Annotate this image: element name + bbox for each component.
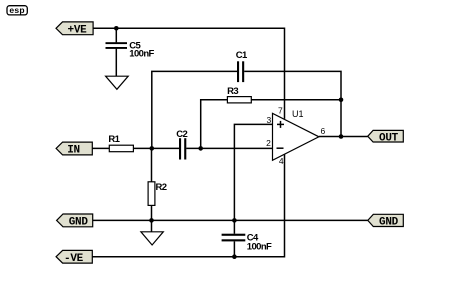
svg-text:IN: IN <box>67 144 80 156</box>
svg-text:C2: C2 <box>176 129 187 140</box>
svg-text:GND: GND <box>69 217 89 229</box>
svg-text:R3: R3 <box>227 86 238 97</box>
svg-text:-VE: -VE <box>64 253 84 265</box>
svg-text:esp: esp <box>9 5 25 15</box>
svg-text:OUT: OUT <box>379 132 399 144</box>
svg-text:6: 6 <box>321 126 326 136</box>
svg-text:7: 7 <box>278 106 283 116</box>
svg-text:U1: U1 <box>292 109 304 119</box>
svg-text:4: 4 <box>279 156 284 166</box>
svg-text:100nF: 100nF <box>247 241 272 252</box>
svg-text:R2: R2 <box>156 182 167 193</box>
svg-text:3: 3 <box>267 115 272 125</box>
svg-text:2: 2 <box>266 138 271 148</box>
svg-text:C1: C1 <box>236 50 248 61</box>
svg-text:100nF: 100nF <box>129 48 154 59</box>
svg-text:R1: R1 <box>108 134 120 145</box>
svg-text:GND: GND <box>379 217 399 229</box>
svg-text:+VE: +VE <box>68 24 88 36</box>
